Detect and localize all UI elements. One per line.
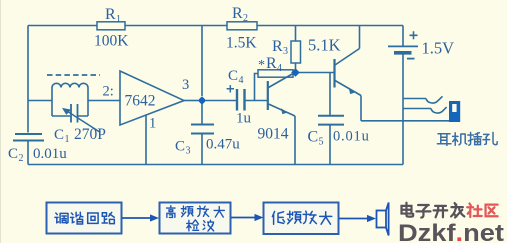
- node vertical from rail to output node: [201, 26, 203, 97]
- svg-text:R: R: [232, 5, 243, 22]
- wire emitter to jack: [361, 120, 449, 122]
- svg-text:1.5K: 1.5K: [226, 35, 257, 52]
- svg-text:*: *: [258, 58, 265, 73]
- wire left vertical: [27, 26, 29, 133]
- svg-text:C: C: [175, 139, 185, 155]
- svg-text:100K: 100K: [94, 33, 129, 50]
- capacitor C5: [318, 116, 344, 125]
- svg-text:R: R: [266, 55, 277, 72]
- transistor Q1 9014: [267, 81, 269, 110]
- battery plus sign: [410, 31, 418, 39]
- svg-text:R: R: [105, 6, 116, 23]
- wire R3 riser: [295, 26, 297, 42]
- node A output dot: [198, 96, 207, 105]
- capacitor C4: [237, 89, 245, 111]
- svg-text:5.1K: 5.1K: [308, 36, 341, 55]
- ferrite core dashed line: [47, 74, 100, 76]
- svg-text:Dzkf.net: Dzkf.net: [398, 220, 504, 243]
- resistor R4: [258, 70, 293, 77]
- speaker: [377, 203, 389, 236]
- resistor R3: [291, 41, 301, 63]
- wire tank left lead: [28, 100, 52, 102]
- svg-text:3: 3: [182, 77, 189, 93]
- resistor R2: [227, 22, 257, 30]
- bottom rail: [28, 164, 403, 166]
- wire Q2 collector riser: [359, 26, 361, 49]
- wire battery top: [402, 26, 404, 46]
- svg-text:0.01u: 0.01u: [33, 146, 67, 162]
- svg-text:3: 3: [283, 46, 288, 57]
- wire Q2 emitter drop: [360, 96, 362, 121]
- wire battery bottom to rail: [402, 55, 404, 165]
- transistor Q2: [333, 59, 335, 88]
- svg-text:0.47u: 0.47u: [206, 137, 240, 153]
- block box 低频放大: [264, 203, 339, 235]
- wire C5 tap down: [329, 73, 331, 116]
- svg-text:7642: 7642: [125, 93, 156, 110]
- wire R4 right lead: [293, 73, 296, 75]
- svg-text:4: 4: [277, 63, 282, 74]
- svg-text:2: 2: [19, 153, 24, 164]
- svg-text:1u: 1u: [236, 111, 252, 127]
- battery BT1: [388, 46, 418, 52]
- wire Q1 emitter to ground: [294, 116, 296, 165]
- wire apex to node: [184, 100, 198, 102]
- jack contact hook lower: [431, 107, 447, 113]
- capacitor C3: [191, 125, 214, 134]
- wire C3 to ground: [201, 134, 203, 164]
- wire R4 left lead: [255, 74, 259, 101]
- svg-text:1: 1: [65, 134, 70, 145]
- arrow 2: [231, 217, 256, 219]
- svg-text:3: 3: [186, 146, 191, 157]
- block box 调谐回路: [47, 203, 122, 234]
- svg-text:1.5V: 1.5V: [422, 39, 455, 58]
- jack contact hook upper: [426, 96, 443, 103]
- svg-text:C: C: [8, 146, 18, 162]
- svg-text:5: 5: [319, 137, 324, 148]
- svg-text:C: C: [54, 127, 64, 143]
- svg-text:9014: 9014: [258, 126, 289, 143]
- node B R3/R4 dot: [291, 68, 300, 77]
- arrow 1: [122, 217, 151, 219]
- wire C2 bottom to rail: [27, 141, 29, 165]
- svg-text:C: C: [228, 68, 238, 84]
- capacitor C2: [13, 134, 44, 141]
- svg-text:1: 1: [116, 14, 121, 25]
- resistor R1: [97, 22, 125, 30]
- battery minus sign: [407, 58, 415, 60]
- wire jack branch upper: [403, 98, 426, 100]
- svg-text:C: C: [308, 129, 319, 146]
- wire pin 1 down: [145, 115, 147, 165]
- svg-text:R: R: [272, 38, 283, 55]
- wire node2 to Q2 base: [299, 72, 334, 74]
- wire jack branch lower: [403, 108, 431, 110]
- capacitor C1 (variable): [71, 104, 78, 123]
- svg-text:2: 2: [243, 13, 248, 24]
- block box 高频放大/检波: [160, 203, 231, 234]
- wire node down to C3: [201, 104, 203, 124]
- earphone jack body: [449, 101, 460, 122]
- logo 电子开发 (gray): [401, 203, 464, 218]
- arrow 3: [339, 218, 368, 220]
- op-amp U1 7642 triangle: [120, 71, 184, 125]
- wire tank right lead (pin 2): [88, 100, 120, 102]
- inductor coil L: [52, 83, 88, 116]
- svg-text:4: 4: [239, 75, 244, 86]
- left edge shade: [0, 0, 1, 243]
- label 耳机插孔: [437, 132, 497, 145]
- svg-text:1: 1: [149, 116, 156, 132]
- wire C4 to Q1 base: [245, 100, 267, 102]
- wire C5 to ground: [329, 125, 331, 165]
- svg-text:0.01u: 0.01u: [333, 129, 370, 145]
- svg-text:2:: 2:: [103, 84, 114, 100]
- wire top rail: [28, 25, 403, 27]
- capacitor C4 plus sign: [227, 85, 234, 92]
- wire output node to C4: [206, 100, 236, 102]
- wire R3 to node2: [295, 63, 297, 70]
- logo 社区 (red): [467, 203, 497, 217]
- svg-text:270P: 270P: [74, 126, 106, 143]
